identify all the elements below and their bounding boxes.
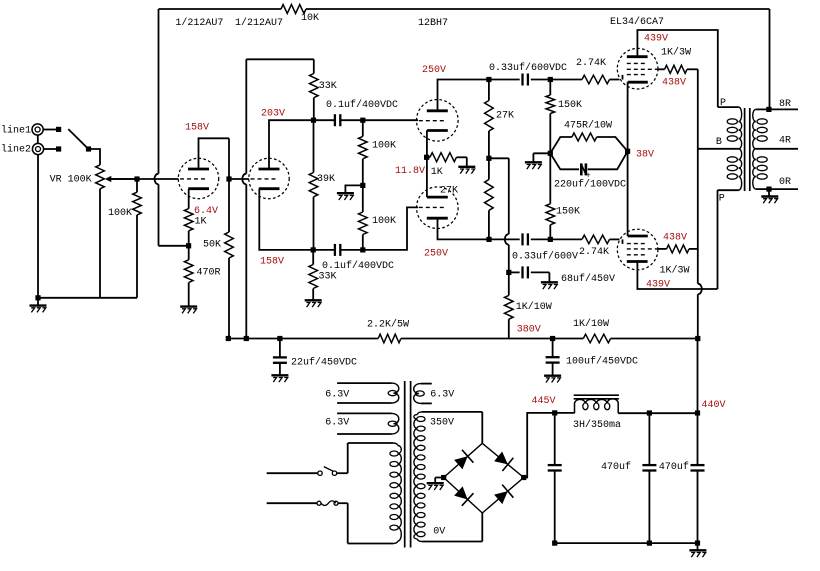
- wire V1a plate up and right: [199, 138, 230, 169]
- opt primary lower: [739, 149, 742, 190]
- wire screen supply lower: [697, 294, 699, 338]
- svg-text:100K: 100K: [372, 216, 396, 227]
- wire bridge plus riser: [524, 413, 555, 478]
- node PS gnd c: [695, 541, 700, 546]
- svg-text:1K/10W: 1K/10W: [573, 318, 609, 330]
- node lower EL34 grid net: [548, 237, 553, 242]
- triode V2a 12BH7 upper: [417, 100, 459, 142]
- pt primary winding: [348, 443, 402, 544]
- svg-text:439V: 439V: [644, 34, 668, 45]
- svg-text:1K/3W: 1K/3W: [660, 265, 690, 277]
- svg-text:39K: 39K: [317, 174, 335, 185]
- hop supply line over coupling wire: [505, 234, 509, 245]
- capacitor 470uf first: [642, 413, 656, 543]
- svg-text:0.1uf/400VDC: 0.1uf/400VDC: [326, 99, 398, 111]
- wire V1b plate to cap: [314, 119, 335, 121]
- svg-text:3H/350ma: 3H/350ma: [573, 419, 621, 431]
- capacitor 0.33uf/600VDC upper: [521, 74, 523, 86]
- svg-text:2.2K/5W: 2.2K/5W: [367, 319, 409, 331]
- wire input ground rail: [38, 297, 137, 299]
- svg-text:10K: 10K: [301, 13, 319, 24]
- svg-text:33K: 33K: [319, 272, 337, 283]
- node 440V a: [647, 410, 652, 415]
- ground grid leak midpoint: [337, 192, 354, 194]
- svg-text:250V: 250V: [424, 249, 448, 260]
- wire V4 plate to OPT P bottom: [637, 190, 717, 289]
- node rail x246: [244, 336, 249, 341]
- svg-text:6.3V: 6.3V: [430, 389, 454, 400]
- svg-text:6.3V: 6.3V: [325, 389, 349, 400]
- resistor 1K V1a cathode: [184, 189, 193, 246]
- bridge rectifier frame: [444, 443, 524, 513]
- ground 0R: [761, 189, 778, 203]
- svg-text:11.8V: 11.8V: [395, 166, 425, 177]
- wire supply drop x245 lower: [245, 184, 247, 338]
- wire feedback into cathode node A: [159, 245, 189, 247]
- ground cathode network: [525, 153, 550, 169]
- resistor 1K 12BH7 cathode: [427, 153, 467, 167]
- node rail 440V riser: [695, 336, 700, 341]
- triode V2b 12BH7 lower: [417, 187, 459, 229]
- ground V1a cathode: [180, 305, 197, 307]
- resistor 1K/10W horizontal: [583, 334, 610, 343]
- wire to V1b grid: [229, 178, 249, 180]
- hop screen line over plate wire: [698, 284, 702, 295]
- wire 440V riser: [697, 339, 699, 413]
- wire V1b cathode to cap: [313, 249, 334, 251]
- node 27K midpoint: [486, 156, 491, 161]
- ground 68uf: [541, 281, 558, 283]
- node 440V b: [695, 410, 700, 415]
- resistor 2.74K lower: [550, 235, 622, 244]
- wire jack1 to jack2 shield: [37, 135, 39, 143]
- wire upper coupling right: [531, 79, 551, 81]
- svg-text:438V: 438V: [662, 78, 686, 89]
- opt primary bottom lead: [718, 189, 739, 191]
- svg-text:1K/10W: 1K/10W: [516, 301, 552, 313]
- wire V1a plate drop to V1b grid: [228, 138, 230, 179]
- potentiometer VR 100K: [96, 165, 137, 189]
- svg-text:2.74K: 2.74K: [579, 247, 609, 258]
- capacitor C input: [548, 413, 562, 543]
- wire lower coupling right: [531, 238, 551, 240]
- wire cap to grid node upper: [341, 119, 363, 121]
- svg-text:68uf/450V: 68uf/450V: [561, 273, 615, 285]
- node V2a plate: [486, 77, 491, 82]
- opt secondary upper: [753, 109, 769, 148]
- input jack line1: [32, 124, 61, 135]
- svg-text:1/212AU7: 1/212AU7: [175, 17, 223, 29]
- input selector switch: [68, 129, 91, 151]
- svg-text:line1: line1: [1, 125, 31, 137]
- svg-text:0R: 0R: [779, 177, 791, 188]
- resistor 33K V1b cathode: [309, 250, 318, 300]
- hop feedback line over grid wire: [155, 174, 159, 185]
- wire rail mid segment: [401, 338, 583, 340]
- wire 8R tap: [769, 108, 798, 110]
- resistor 1K/3W upper screen: [658, 65, 698, 73]
- opt core: [744, 108, 746, 191]
- wire V4 cathode up: [627, 151, 629, 236]
- triode V1b 12AU7: [249, 158, 289, 198]
- wire rail right segment: [611, 338, 698, 340]
- node bridge plus: [521, 475, 526, 480]
- node PS gnd a: [552, 541, 557, 546]
- wire to 12BH7 upper grid: [363, 119, 418, 121]
- node upper EL34 grid net: [548, 77, 553, 82]
- resistor 150K lower: [546, 153, 555, 239]
- capacitor 22uf/450VDC: [273, 339, 287, 375]
- wire screen supply upper: [697, 69, 699, 283]
- node 0R: [766, 187, 771, 192]
- wire pot bottom to ground rail: [99, 189, 101, 298]
- svg-text:470uf: 470uf: [601, 461, 631, 473]
- svg-text:6.4V: 6.4V: [194, 206, 218, 217]
- svg-text:1K: 1K: [195, 216, 207, 227]
- svg-text:220uf/100VDC: 220uf/100VDC: [554, 178, 626, 190]
- svg-text:158V: 158V: [260, 257, 284, 268]
- resistor 100K lower grid leak: [359, 185, 368, 250]
- svg-text:4R: 4R: [779, 136, 791, 147]
- svg-text:150K: 150K: [556, 207, 580, 218]
- wire PS ground rail: [555, 542, 698, 544]
- svg-text:B: B: [716, 137, 722, 148]
- wire mains bottom to fuse: [347, 503, 349, 543]
- node wiper junction: [134, 176, 139, 181]
- hop supply line over V1b grid wire: [242, 174, 246, 185]
- capacitor 100uf/450VDC: [546, 339, 560, 376]
- capacitor 220uf/100VDC: [550, 151, 627, 180]
- node 100uf tap: [550, 336, 555, 341]
- svg-text:1K/3W: 1K/3W: [661, 47, 691, 59]
- resistor 1K/10W vertical: [505, 272, 514, 338]
- wire V2b plate down right: [438, 218, 490, 240]
- svg-text:EL34/6CA7: EL34/6CA7: [610, 16, 664, 28]
- resistor 10K feedback: [281, 5, 306, 14]
- wire V1b cathode down right: [259, 189, 313, 250]
- input jack line2: [32, 143, 61, 154]
- resistor 39K: [309, 120, 318, 250]
- svg-text:445V: 445V: [532, 396, 556, 407]
- node cathode net left: [548, 151, 553, 156]
- svg-text:250V: 250V: [422, 65, 446, 76]
- svg-text:12BH7: 12BH7: [418, 18, 448, 29]
- svg-text:27K: 27K: [496, 111, 514, 122]
- pt core: [404, 381, 406, 548]
- wire cap to grid node lower: [341, 249, 363, 251]
- node 8R: [766, 107, 771, 112]
- resistor 470R: [184, 246, 193, 306]
- svg-text:0.33uf/600V: 0.33uf/600V: [512, 251, 578, 263]
- svg-text:22uf/450VDC: 22uf/450VDC: [291, 357, 357, 369]
- pt rectifier heater winding 6.3V: [414, 384, 432, 404]
- node bridge minus: [441, 475, 446, 480]
- wire supply drop x245 upper: [245, 59, 247, 173]
- node 12BH7 cathodes: [424, 155, 429, 160]
- svg-text:440V: 440V: [702, 400, 726, 411]
- node V1b grid tap: [226, 176, 231, 181]
- wire cathodes joined: [426, 130, 428, 197]
- svg-text:0.33uf/600VDC: 0.33uf/600VDC: [489, 62, 567, 74]
- capacitor 0.1uf/400VDC upper: [334, 114, 336, 126]
- wire V1b plate up: [269, 120, 314, 169]
- capacitor 470uf second: [691, 413, 705, 543]
- wire feedback top left segment: [159, 8, 282, 10]
- wire V2a plate up right: [438, 80, 489, 112]
- pt heater winding 6.3V #1: [337, 383, 399, 403]
- wire feedback left drop lower: [158, 184, 160, 246]
- ground input: [30, 298, 47, 313]
- wire 0V to bridge bottom: [481, 513, 483, 542]
- node 22uf tap: [277, 336, 282, 341]
- wire switch to volume pot: [91, 149, 100, 165]
- ground 22uf: [271, 374, 288, 376]
- wire jack shield down: [37, 155, 39, 298]
- svg-text:100K: 100K: [372, 141, 396, 152]
- svg-text:439V: 439V: [646, 279, 670, 290]
- wire feedback right drop to 8R tap: [769, 9, 771, 109]
- wire feedback top right segment: [306, 8, 770, 10]
- node 100K midpoint: [360, 183, 365, 188]
- wire midpoint ground tap: [345, 185, 362, 192]
- ground bridge minus: [427, 478, 444, 491]
- opt primary upper: [718, 107, 742, 149]
- capacitor 0.33uf/600V lower: [521, 233, 523, 245]
- svg-text:0V: 0V: [433, 527, 445, 538]
- wire feedback left drop upper: [158, 9, 160, 174]
- wire supply x508 lower: [508, 245, 510, 273]
- wire V3 cathode down: [627, 82, 629, 151]
- wire 440V segment: [649, 412, 697, 414]
- svg-text:1/212AU7: 1/212AU7: [235, 17, 283, 29]
- svg-text:470R: 470R: [197, 268, 221, 279]
- wire lower coupling left: [489, 238, 520, 240]
- ground 100uf: [544, 375, 561, 377]
- svg-text:100K: 100K: [108, 208, 132, 219]
- node lower grid leak: [360, 247, 365, 252]
- opt secondary lower: [753, 149, 756, 189]
- resistor 2.74K upper: [550, 75, 622, 84]
- svg-text:1K: 1K: [431, 167, 443, 178]
- wire mains top to switch: [347, 443, 349, 473]
- diode D4 bottom-right: [494, 491, 508, 504]
- node 38V cathodes: [625, 149, 630, 154]
- svg-text:6.3V: 6.3V: [325, 417, 349, 428]
- node A cathode feedback: [186, 243, 191, 248]
- pt heater winding 6.3V #2: [337, 413, 399, 434]
- diode D3 left-bottom: [454, 486, 468, 499]
- node upper grid leak: [360, 118, 365, 123]
- ground 12BH7 cathode: [458, 166, 475, 168]
- svg-text:158V: 158V: [185, 123, 209, 134]
- diode D1 left-top: [454, 456, 468, 469]
- wire 4R tap: [756, 148, 798, 150]
- svg-text:150K: 150K: [558, 100, 582, 111]
- capacitor 68uf/450V: [509, 266, 550, 281]
- svg-text:380V: 380V: [517, 325, 541, 336]
- wire V1a grid: [111, 178, 179, 180]
- node PS gnd b: [647, 541, 652, 546]
- svg-text:470uf: 470uf: [659, 461, 689, 473]
- ground PS rail: [689, 543, 706, 557]
- ground V1b cathode: [305, 299, 322, 301]
- svg-text:VR 100K: VR 100K: [50, 175, 92, 186]
- resistor 100K upper grid leak: [359, 120, 368, 185]
- wire V3 plate to OPT P top: [637, 30, 717, 107]
- diode D2 top-right: [494, 452, 508, 465]
- wire to 12BH7 lower grid: [363, 207, 418, 250]
- svg-text:438V: 438V: [663, 232, 687, 243]
- node V1b cathode: [311, 247, 316, 252]
- node V1b plate: [311, 118, 316, 123]
- resistor 27K upper: [485, 80, 494, 159]
- wire rail left segment: [229, 338, 378, 340]
- node ground rail: [35, 295, 40, 300]
- resistor 475R/10W: [550, 133, 627, 153]
- wire supply x508 upper: [508, 158, 510, 234]
- svg-text:line2: line2: [1, 144, 31, 156]
- svg-text:203V: 203V: [261, 108, 285, 119]
- svg-text:8R: 8R: [779, 99, 791, 110]
- inductor choke 3H/350ma: [555, 395, 650, 413]
- wire 0R tap: [756, 188, 798, 190]
- svg-text:38V: 38V: [636, 149, 654, 160]
- resistor 27K lower: [485, 158, 494, 239]
- mains switch: [267, 467, 348, 476]
- node rail x229: [226, 336, 231, 341]
- pt HV winding 350V: [414, 412, 482, 542]
- node V2b plate: [486, 237, 491, 242]
- wire B center tap: [698, 148, 739, 150]
- resistor 2.2K/5W: [378, 334, 401, 343]
- svg-text:27K: 27K: [440, 186, 458, 197]
- svg-text:50K: 50K: [203, 240, 221, 251]
- svg-text:2.74K: 2.74K: [576, 58, 606, 69]
- svg-text:350V: 350V: [430, 418, 454, 429]
- pentode V4 EL34 lower: [617, 229, 658, 270]
- resistor 50K plate load V1a: [225, 179, 234, 338]
- svg-text:475R/10W: 475R/10W: [564, 120, 612, 132]
- node 68uf tap: [506, 270, 511, 275]
- mains fuse: [267, 501, 348, 506]
- resistor 150K upper: [546, 80, 555, 154]
- pentode V3 EL34 upper: [617, 48, 658, 89]
- capacitor 0.1uf/400VDC lower: [334, 244, 336, 256]
- svg-text:P: P: [719, 194, 725, 205]
- node 445V: [552, 410, 557, 415]
- wire 33K supply rail: [246, 58, 313, 60]
- svg-text:33K: 33K: [319, 81, 337, 92]
- resistor 1K/3W lower screen: [658, 245, 698, 253]
- wire upper coupling left: [489, 79, 520, 81]
- resistor 100K input: [133, 179, 142, 298]
- svg-text:0.1uf/400VDC: 0.1uf/400VDC: [322, 260, 394, 272]
- svg-text:100uf/450VDC: 100uf/450VDC: [566, 356, 638, 368]
- resistor 33K plate load V1b: [310, 59, 319, 120]
- wire 350V to bridge top: [481, 412, 483, 443]
- triode V1a 12AU7: [178, 158, 218, 198]
- wire 27K midpoint right: [489, 157, 509, 159]
